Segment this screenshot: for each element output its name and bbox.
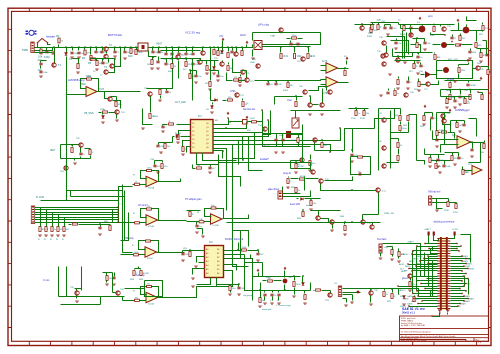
wire web across low (187, 279, 233, 298)
opamp IC11A (211, 214, 223, 225)
parts below ic1-left (153, 165, 156, 167)
wires bundle y52-56 (393, 56, 413, 58)
transistor Q90 dockleft (408, 274, 412, 278)
wire mid join (387, 162, 399, 164)
cap near ic11 (195, 225, 198, 227)
svg-text:R115: R115 (351, 118, 357, 120)
svg-text:GND: GND (250, 62, 255, 64)
svg-text:prog dn: prog dn (283, 172, 292, 175)
parts lower right hladder (311, 170, 315, 174)
wire down from ic1 area (172, 137, 174, 143)
tr extra 1 (459, 36, 461, 41)
wire opamp4 out right (173, 297, 187, 299)
wire tl down x115 (109, 59, 115, 73)
wire tfr stub a (400, 25, 402, 29)
resistor R23 (227, 66, 229, 71)
capacitor Ccb (270, 294, 273, 296)
resistor R30 (169, 123, 174, 125)
pot RP1 (292, 118, 299, 128)
wire dock left vertical 1 (424, 253, 426, 277)
wire nested loop mid (351, 157, 371, 175)
svg-text:pwr: pwr (404, 269, 408, 272)
wire out IC10D (158, 297, 173, 299)
gnd ic11 in (201, 236, 205, 237)
svg-text:prot: prot (428, 14, 433, 18)
wire vert x352 y128-150 (352, 129, 354, 151)
transistor Q98 (116, 291, 120, 295)
dock left rows batch2 (425, 243, 438, 245)
gnd nested box (453, 81, 457, 82)
svg-text:R112: R112 (250, 118, 256, 120)
diode D5 (211, 106, 214, 109)
resistor R27 (242, 102, 244, 107)
wire main top bus (35, 47, 247, 49)
wire bus third (35, 52, 51, 54)
wire web down 1 (219, 155, 241, 187)
wire mr v x444 (444, 125, 446, 141)
svg-text:BC847: BC847 (298, 166, 305, 168)
parts row y80 right (449, 83, 451, 88)
capacitor C2 (39, 63, 42, 65)
parts right of x2 (98, 227, 101, 229)
wire reg out (149, 47, 247, 49)
IC2 regulator (205, 246, 224, 278)
resistor R25 (209, 82, 211, 87)
wire dock left (425, 258, 438, 260)
transistor Q62 (79, 143, 83, 147)
wire cb top (253, 276, 301, 278)
diode D2 (221, 51, 224, 54)
vcc bus 223 (222, 38, 224, 41)
vertical runs x430 450 (430, 119, 432, 131)
IC1 pin3 wire (181, 136, 191, 138)
wire opamp feedback loop (81, 79, 99, 92)
junction IC10C (144, 248, 146, 250)
wire dock left (421, 260, 438, 262)
resistor R123 (391, 250, 393, 255)
wire bus second (35, 48, 53, 51)
wire bus tl 2nd level (91, 58, 115, 60)
wire in IC10B (133, 222, 147, 224)
resistor R116 (363, 111, 365, 116)
in feeds from left col (119, 186, 133, 188)
svg-text:IC10A: IC10A (148, 187, 155, 190)
capacitor C90 (266, 83, 269, 85)
svg-text:C sns: C sns (43, 279, 50, 282)
wire tr1 (253, 32, 321, 34)
resistor R72 (103, 111, 108, 113)
svg-text:drive: drive (306, 204, 312, 207)
wire top pair (309, 87, 327, 91)
svg-text:STAT: STAT (270, 35, 276, 38)
resistor R96 (409, 282, 411, 287)
left block nested rect (378, 109, 380, 171)
svg-text:gate driver: gate driver (268, 188, 279, 191)
vcc cb (257, 269, 259, 272)
resistor R106 (377, 25, 379, 30)
wire top mid bus y47 extension (247, 45, 253, 48)
wire sub h2 (197, 60, 219, 62)
transistor Q20 (279, 28, 283, 32)
wires from small conn (283, 193, 301, 195)
wire feed from above (41, 95, 67, 201)
wire web mid h y176 (219, 176, 233, 178)
gnd c72 (274, 152, 278, 153)
resistor R12 (213, 50, 215, 55)
resistor in IC10B (135, 222, 140, 224)
transistor Q97 (148, 92, 152, 96)
capacitor C12 (170, 53, 173, 55)
transistor Q31 filled (441, 42, 447, 48)
wire q52 down (314, 143, 316, 151)
IC1 right wires fan (213, 119, 229, 125)
mid-left block q62 (71, 144, 79, 146)
capacitor C15 (52, 51, 54, 54)
resistor R70 (321, 143, 323, 148)
cap c55 (409, 27, 412, 29)
more row5 parts (418, 82, 420, 87)
nested wire box right (437, 61, 473, 79)
wire out IC10A (158, 181, 173, 183)
parts row y158 right (451, 156, 453, 161)
svg-text:PWR_SW: PWR_SW (384, 213, 395, 215)
wire dock left low (419, 296, 438, 298)
svg-text:VCC 5V reg: VCC 5V reg (185, 31, 200, 35)
svg-text:10k: 10k (38, 55, 43, 59)
svg-text:date adr MICROTECHNIK: date adr MICROTECHNIK (401, 339, 427, 342)
row y80 more (426, 82, 430, 86)
svg-text:R41: R41 (284, 55, 289, 58)
capacitor C3 (39, 71, 42, 73)
IC6 box (254, 41, 262, 50)
parts y115 right (423, 116, 425, 121)
resistor in IC10A (135, 183, 140, 185)
wire right edge y47 (477, 48, 489, 50)
gnd q61 (115, 120, 119, 121)
wire ic2 out long right (245, 255, 263, 263)
wire cb mid h (253, 290, 311, 292)
wire h y61 (395, 60, 421, 62)
transistor Q9 (198, 60, 202, 64)
svg-text:DC/DC 3A buck: DC/DC 3A buck (225, 237, 244, 241)
resistor RC3 (58, 223, 60, 227)
wire bl long 2 (241, 231, 253, 277)
gnd k1b (379, 258, 383, 259)
wire web ic2 right routing (253, 263, 263, 277)
wire dock left (413, 270, 438, 272)
svg-text:SW1: SW1 (279, 135, 285, 137)
wire down q70 (321, 184, 341, 191)
dock left vertical 4 (432, 261, 434, 297)
parts 432-440 (434, 55, 436, 60)
pin marks dock left ends (424, 243, 425, 244)
capacitor C53 (416, 56, 419, 58)
resistor R90 (268, 280, 273, 282)
resistor R6 (91, 58, 96, 60)
row tfr y24 more (403, 26, 405, 31)
wire sub h (161, 58, 197, 60)
resistor R45 (344, 71, 346, 76)
wire right edge vertical (480, 143, 482, 163)
wire in IC10C (131, 254, 145, 256)
svg-text:R105: R105 (368, 33, 374, 35)
resistor R41 (280, 54, 282, 59)
svg-text:GATE: GATE (407, 303, 413, 306)
parts top right corner mid (355, 24, 375, 26)
nested stair wires top-left of connector (433, 247, 438, 251)
transistor Q38 (409, 33, 413, 37)
IC1 bottom wires (203, 153, 237, 161)
resistor R15 (217, 51, 219, 56)
wire tr2 (252, 33, 254, 41)
box part K3 (243, 120, 248, 125)
connector pin stubs (437, 239, 450, 309)
capacitor C14 (184, 53, 187, 55)
cap c57 (485, 54, 488, 56)
svg-text:IC2: IC2 (209, 241, 213, 244)
svg-text:AUX2: AUX2 (403, 253, 409, 256)
svg-text:header: header (46, 35, 55, 39)
gnd block62 (73, 163, 77, 164)
diode D10 (102, 116, 105, 119)
wire bottom left down (304, 177, 306, 191)
tr extra wires (459, 64, 469, 66)
resistor R117 (106, 276, 108, 281)
resistor ladder right of q41 (399, 116, 401, 121)
wires opamp inputs (321, 65, 327, 67)
wire web mid h y158 (233, 158, 255, 160)
IC2 left wires (191, 250, 205, 252)
diode D3 (213, 67, 216, 70)
transistor Q41 (382, 118, 386, 122)
svg-text:LMV358 amp: LMV358 amp (68, 78, 85, 82)
connector X2 wires fan (35, 207, 119, 209)
resistor R81 (295, 188, 297, 193)
transistor Q11 (241, 70, 245, 74)
wire ic6 right2 (263, 46, 311, 48)
svg-text:LM358bgger: LM358bgger (455, 108, 470, 112)
gnd r122 (228, 294, 232, 295)
extra tl parts row (96, 61, 98, 66)
svg-text:+5V: +5V (219, 36, 224, 38)
wire opamp5 out right (237, 215, 249, 219)
wire k1 net (383, 244, 421, 253)
capacitor C81 (256, 253, 259, 255)
resistor fb IC11A (211, 207, 216, 209)
transistor Q8 (176, 55, 180, 59)
cap pair tfr1 (383, 27, 386, 29)
svg-text:VB_SNS: VB_SNS (84, 112, 94, 115)
junction IC10D (145, 294, 147, 296)
wire mid right long 1 (375, 109, 395, 129)
transistor Q53 (300, 158, 304, 162)
wires from battery pins (429, 236, 437, 244)
wire in IC10D (133, 300, 147, 302)
dock right low extra (451, 306, 459, 308)
resistor fb IC10A (147, 169, 152, 171)
resistor RC0 (40, 223, 42, 227)
wire mr h y155 (425, 154, 445, 156)
opamp IC10A (146, 176, 158, 187)
IC reg box (138, 43, 148, 51)
svg-text:glued: glued (402, 278, 408, 280)
svg-text:+BAT: +BAT (376, 19, 382, 22)
wire long mid-vertical x270 (263, 111, 271, 135)
wire dock right (451, 263, 467, 265)
capacitor C33 (208, 167, 211, 169)
capacitor C14 (230, 51, 233, 53)
wire dock right (451, 296, 465, 298)
svg-text:BC847: BC847 (300, 176, 307, 178)
connector body (442, 237, 446, 310)
wire dock right (451, 300, 465, 302)
svg-text:R43: R43 (311, 55, 316, 58)
resistor R26 (228, 99, 233, 101)
resistor R5 (90, 56, 92, 61)
svg-text:MAIN: MAIN (461, 303, 467, 306)
resistor R103 (149, 114, 151, 119)
left lower parts (403, 296, 406, 299)
wire q60 right (113, 101, 121, 109)
transistor Q70 (319, 179, 323, 183)
switch area x286-300 y131-140 (286, 131, 291, 138)
vcc ic1 (227, 112, 229, 115)
wire tm (255, 80, 301, 82)
svg-text:R103: R103 (153, 116, 159, 118)
wire s1 right (48, 43, 51, 45)
resistor R14 (135, 50, 137, 55)
wire block62 (61, 144, 71, 146)
wire q13 up (246, 71, 248, 78)
wire bl long 1 (233, 177, 249, 267)
wire to right edge (367, 222, 373, 224)
transistor Q71 (376, 188, 380, 192)
wire left col vertical x128 (121, 213, 129, 241)
svg-text:SNS2: SNS2 (469, 269, 475, 271)
wire sub bus (161, 50, 201, 52)
wire in IC10A (133, 184, 147, 186)
wire cb right (310, 283, 312, 291)
junction IC10B (145, 216, 147, 218)
opamp IC7B (326, 77, 338, 88)
switch S1 (38, 39, 48, 43)
svg-text:Dr. Richard Wittmannsberger4: Dr. Richard Wittmannsberger4 (401, 330, 431, 333)
wire y110 h (291, 110, 341, 112)
svg-text:SNS: SNS (400, 296, 405, 298)
svg-text:R10: R10 (128, 55, 133, 58)
nested rect q97 (143, 109, 153, 125)
wire long left vertical x66 extension (66, 95, 68, 201)
wire right drop (108, 59, 110, 63)
resistor R71 (115, 102, 117, 107)
parts row y66 (413, 64, 415, 69)
transistor Q35 (442, 27, 446, 31)
capacitor C41 (296, 43, 299, 45)
resistor R125 (446, 99, 448, 104)
resistor R113 (297, 138, 299, 143)
connector K2 (429, 196, 432, 205)
wire x2 net up2 (113, 210, 133, 223)
transistor Q39 row3 (381, 54, 385, 58)
wire lm h1 (67, 190, 123, 192)
wires x3 (343, 288, 369, 290)
wire dock left low (419, 303, 438, 305)
capacitor C10 (151, 51, 154, 53)
parts row y80 (397, 80, 399, 85)
capacitor Ccb (277, 294, 280, 296)
resistor R114 (295, 164, 297, 169)
svg-text:docking connector: docking connector (433, 220, 454, 224)
capacitor in loop (359, 172, 361, 175)
wire link to opamp left (105, 91, 141, 93)
transistor Q40 (404, 93, 408, 97)
svg-text:BC847: BC847 (175, 133, 182, 135)
svg-text:level shift: level shift (290, 203, 300, 206)
svg-text:R2: R2 (56, 34, 60, 38)
opamp IC10D (146, 292, 158, 303)
wire q92 down (370, 296, 372, 303)
nested stair wires mid-left (433, 289, 438, 294)
wire bl ext (112, 273, 114, 293)
small connector center (278, 191, 283, 199)
resistor R83 (302, 212, 304, 217)
wire right edge top (467, 17, 477, 21)
capacitor C73 (281, 139, 284, 141)
junction dot ic1 (222, 150, 224, 152)
electrolytic E1 (419, 26, 426, 33)
mini opamp filled (425, 71, 431, 78)
svg-text:CHG: CHG (230, 90, 235, 93)
resistor R121 (429, 158, 431, 163)
resistor R120 (436, 131, 438, 136)
wire web vertical x248 (249, 137, 263, 171)
wire mid right long 2 (344, 129, 346, 135)
transistor Q60 (108, 97, 112, 101)
wire opamp out (97, 91, 105, 93)
resistor R74 (89, 150, 91, 155)
transistor Q61 (115, 110, 119, 114)
wire dock left long glued (399, 286, 438, 288)
IC1 pin5 wire (187, 147, 191, 153)
gnd center pair (330, 230, 334, 231)
dock left long to prog (399, 289, 419, 297)
wire bl h1 (59, 296, 101, 298)
gnd bl ext (105, 284, 109, 285)
svg-text:LDO: LDO (240, 33, 247, 37)
transistor Q36 (396, 58, 400, 62)
wire opamp in feeds (301, 80, 321, 81)
capacitor C70 (350, 154, 353, 156)
svg-text:IC1: IC1 (198, 115, 202, 118)
svg-text:PWR: PWR (22, 48, 28, 52)
wires q90 (413, 271, 427, 277)
resistor R93 vertical pair (304, 295, 306, 300)
left parts of ic1 (156, 145, 159, 147)
resistor divider mid (295, 102, 297, 107)
svg-text:100n: 100n (44, 55, 50, 59)
transistor Q63 (64, 166, 68, 170)
wire cb left verticals (252, 277, 254, 301)
transistor Q1 (54, 48, 56, 63)
connector X2 (31, 206, 34, 224)
capacitor C7 (100, 51, 103, 53)
svg-text:IC10C: IC10C (147, 258, 154, 260)
svg-text:bat low det: bat low det (243, 108, 255, 111)
parts ladder y62 (151, 60, 153, 65)
svg-text:R101: R101 (283, 90, 289, 92)
capacitor C30 (161, 126, 164, 128)
svg-text:lowbatt*: lowbatt* (260, 158, 269, 161)
